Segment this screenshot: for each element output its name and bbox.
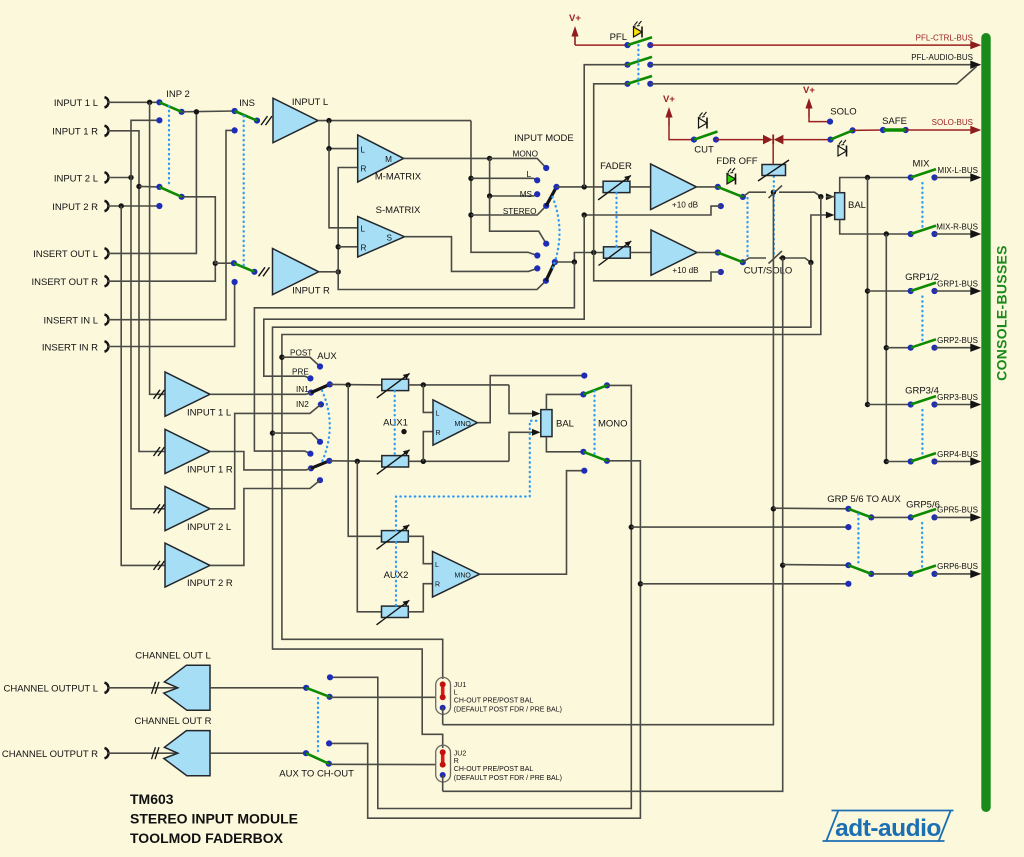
arrow into BAL2 L (826, 193, 835, 200)
svg-text:MNO: MNO (455, 421, 472, 428)
wire INPUT L output (318, 118, 471, 123)
wire pivot2 to fader R (555, 250, 604, 265)
svg-text:V+: V+ (663, 94, 675, 105)
svg-text:FADER: FADER (600, 161, 632, 172)
svg-text:AUX TO CH-OUT: AUX TO CH-OUT (279, 769, 354, 780)
wire INPUT R to matrices (336, 168, 358, 272)
wire INPUT 2 L to column (107, 175, 134, 180)
switch FDR-OFF-R (697, 249, 746, 265)
LED FDR-OFF green (726, 168, 735, 185)
connector INSERT OUT R (31, 276, 108, 288)
wire AUX1-L to MNO1 (423, 385, 433, 413)
label TOOLMOD FADERBOX (130, 830, 284, 846)
dotted gang AUX-TO-CHOUT (317, 698, 319, 751)
wire M output (404, 156, 493, 161)
diode pair (763, 135, 783, 145)
label SOLO-BUS (932, 118, 973, 127)
switch GRP4-BUS (908, 453, 938, 465)
wire INPUT R output node (319, 269, 341, 274)
svg-text:L: L (454, 690, 458, 697)
svg-text:V+: V+ (569, 13, 581, 24)
svg-text:M-MATRIX: M-MATRIX (375, 172, 422, 183)
wire GPR5-BUS (935, 513, 982, 521)
label FDR OFF (716, 156, 757, 167)
wire L after FDR-OFF (743, 192, 766, 197)
node IN1-1 contact (308, 390, 314, 396)
svg-text:L: L (361, 146, 366, 155)
power V+ SOLO (803, 85, 815, 117)
wire PFL tap L (584, 65, 627, 187)
relay FDR-OFF coil (758, 160, 789, 181)
svg-text:INPUT 2 R: INPUT 2 R (187, 578, 233, 589)
op-amp INPUT 1 L lower (154, 372, 232, 418)
wire V+ to SOLO contact (809, 117, 833, 125)
label GRP 5/6 TO AUX (827, 494, 901, 505)
wire chout R to switch (210, 752, 306, 754)
wire diodes to SOLO switch (783, 139, 830, 141)
wire GRP56-R alt (640, 581, 851, 587)
svg-text:CH-OUT PRE/POST BAL: CH-OUT PRE/POST BAL (454, 697, 534, 704)
wire INPUT L to S-matrix L (329, 149, 358, 228)
switch MIX-R-BUS (908, 226, 938, 237)
wire GRP56 R row (783, 564, 849, 567)
svg-text:PRE: PRE (292, 367, 309, 376)
connector INSERT OUT L (33, 248, 108, 260)
label GRP3-BUS (937, 393, 978, 402)
svg-text:POST: POST (290, 349, 312, 358)
switch PFL-ctrl (624, 37, 653, 48)
label CHANNEL OUT R (134, 716, 211, 727)
dotted gang INP2 (168, 106, 170, 187)
node MS2 (534, 265, 540, 271)
op-amp INPUT 1 R lower (154, 429, 233, 475)
wire GRP1-BUS (935, 287, 982, 295)
wire L to BAL (771, 190, 824, 200)
label POST (290, 349, 312, 358)
svg-text:CUT: CUT (694, 145, 714, 156)
wire R after FDR-OFF (743, 258, 766, 262)
svg-text:CHANNEL OUT R: CHANNEL OUT R (134, 716, 211, 727)
svg-text:BAL: BAL (848, 200, 866, 211)
wire GRP56 L feed (443, 192, 776, 725)
wire BAL2 out R (840, 220, 911, 237)
label MIX-L-BUS (938, 166, 978, 175)
switch AUX-TO-CHOUT-L (303, 674, 333, 700)
connector INPUT 1 R (52, 126, 108, 138)
node POST2 contact (317, 439, 323, 445)
switch AUX-TO-CHOUT-R (303, 740, 332, 767)
node POST1 contact (317, 363, 323, 369)
wire INPUT 1 L to INP2 switch (107, 100, 159, 105)
svg-text:R: R (454, 758, 459, 765)
wire pivotL to AUX1 pot (330, 382, 382, 387)
wire V+ to CUT switch (669, 126, 694, 140)
wire INSERT OUT L tap (107, 112, 196, 254)
driver CHANNEL OUT R (164, 731, 210, 776)
wire BAL1 out R (546, 437, 586, 455)
svg-text:INPUT L: INPUT L (292, 97, 328, 108)
label MIX (913, 159, 931, 170)
dotted gang GRP3/4 (921, 410, 923, 456)
svg-text:INS: INS (239, 98, 255, 109)
svg-text:SAFE: SAFE (882, 116, 907, 127)
switch AUX-select-L arm (311, 381, 333, 392)
wire fader R out (630, 252, 651, 254)
label TM603 (130, 791, 174, 807)
svg-text:INP 2: INP 2 (166, 89, 190, 100)
connector INSERT IN L (43, 315, 108, 327)
dotted gang GRP1/2 (921, 297, 923, 343)
potentiometer AUX1-L (377, 373, 410, 398)
switch MIX-L-BUS (908, 169, 938, 180)
dotted gang GRP56 bus (921, 523, 923, 568)
wire AUX1-R out (409, 459, 509, 464)
svg-text:V+: V+ (803, 85, 815, 96)
wire POST-L loop (279, 197, 821, 679)
svg-text:SOLO-BUS: SOLO-BUS (932, 118, 973, 127)
dotted gang AUX-select (321, 391, 330, 465)
switch PFL-audio-R (624, 76, 653, 87)
wire amp1R to IN1-2 (210, 452, 311, 470)
wire FDR-OFF-R alt contact (594, 253, 724, 281)
wire R to AUX2 pot (357, 461, 381, 612)
wire PRE-R loop (254, 262, 574, 454)
op-amp M-MATRIX (358, 135, 422, 183)
switch FDR-OFF-L (696, 184, 746, 200)
driver CHANNEL OUT L (164, 665, 210, 710)
wire INP2-L output to INS (182, 109, 235, 114)
wire chout L sel to JU1 (330, 696, 436, 698)
svg-text:MIX-L-BUS: MIX-L-BUS (938, 166, 978, 175)
slash marks INS-R (259, 267, 270, 276)
switch INP2-R arm (159, 187, 181, 197)
svg-text:INPUT 1 L: INPUT 1 L (187, 407, 231, 418)
wire MIX-L-BUS (935, 173, 982, 181)
switch AUX-select-R arm (311, 458, 332, 469)
svg-text:STEREO: STEREO (503, 207, 537, 216)
svg-text:+10 dB: +10 dB (672, 201, 699, 210)
switch INP2-R contacts (156, 184, 184, 209)
op-amp INPUT 2 L lower (154, 487, 232, 533)
switch SAFE (880, 127, 909, 133)
svg-text:BAL: BAL (556, 419, 574, 430)
label GRP3/4 (905, 386, 939, 397)
connector CHANNEL OUTPUT R (2, 748, 109, 760)
svg-text:MIX-R-BUS: MIX-R-BUS (936, 222, 978, 231)
LED SOLO white (837, 140, 846, 157)
node IN2-2 contact (317, 477, 323, 483)
svg-text:FDR OFF: FDR OFF (716, 156, 757, 167)
svg-text:CH-OUT PRE/POST BAL: CH-OUT PRE/POST BAL (454, 766, 534, 773)
svg-text:R: R (435, 582, 440, 589)
wire POST-R loop (270, 263, 811, 749)
svg-text:L: L (436, 411, 440, 418)
svg-text:INSERT OUT L: INSERT OUT L (33, 249, 98, 260)
label PFL-CTRL-BUS (916, 34, 973, 43)
wire MIX-R-BUS (935, 230, 982, 238)
wire mix L column (865, 178, 870, 408)
switch GRP3-BUS (908, 396, 938, 408)
label GRP1/2 (905, 272, 939, 283)
label CUT (694, 145, 714, 156)
wire chout L to switch (210, 687, 306, 689)
wire CHANNEL OUTPUT L (107, 682, 178, 694)
balance control BAL1 (541, 410, 574, 437)
wire MNO1 out to MONO contact (477, 373, 587, 423)
svg-text:MONO: MONO (513, 150, 538, 159)
svg-text:IN2: IN2 (296, 400, 309, 409)
svg-text:MS: MS (520, 190, 533, 199)
dotted gang MIX (921, 183, 923, 228)
svg-text:INPUT 1 R: INPUT 1 R (52, 127, 98, 138)
wire POST-L to AUX contact (282, 357, 320, 366)
dotted gang PFL (637, 45, 639, 84)
wire GRP1 row (868, 290, 911, 292)
svg-text:S: S (387, 234, 393, 243)
dotted AUX2 to BAL1 (396, 421, 540, 531)
svg-text:INPUT 2 R: INPUT 2 R (52, 202, 98, 213)
op-amp INPUT R (273, 249, 331, 297)
wire INPUT 1 R to column (107, 131, 165, 452)
label CONSOLE-BUSSES (994, 245, 1010, 381)
wire amp2R to IN2-2 (210, 480, 320, 565)
label AUX TO CH-OUT (279, 769, 354, 780)
label IN2 (296, 400, 309, 409)
wire amp1L to IN1-1 (210, 393, 311, 395)
switch INPUT-MODE-R arm (546, 259, 558, 281)
svg-text:(DEFAULT POST FDR / PRE BAL): (DEFAULT POST FDR / PRE BAL) (454, 707, 562, 714)
svg-text:R: R (361, 244, 367, 253)
label AUX2 (384, 570, 409, 581)
potentiometer AUX1-R (377, 450, 410, 475)
wire L to AUX2 pot (348, 385, 381, 536)
connector INSERT IN R (42, 341, 109, 353)
svg-text:JU2: JU2 (454, 750, 467, 757)
wire GRP3 row (868, 404, 911, 406)
svg-text:PFL: PFL (610, 32, 627, 43)
wire CHANNEL OUTPUT R (107, 747, 178, 759)
connector INPUT 2 L (54, 172, 109, 184)
wire JU1 bottom pad (442, 708, 444, 725)
wire INPUT R to STEREO2 contact (338, 272, 546, 290)
svg-text:M: M (385, 155, 392, 164)
svg-text:INPUT 1 L: INPUT 1 L (54, 98, 98, 109)
power V+ PFL (569, 13, 581, 45)
wire V+ to PFL switch (575, 44, 628, 46)
wire pivotR to AUX1 pot (329, 459, 382, 464)
svg-text:INPUT R: INPUT R (292, 286, 330, 297)
wire INSERT IN L return (107, 130, 235, 319)
switch GRP2-BUS (908, 339, 938, 351)
wire stereo R to BAL1 (509, 429, 541, 461)
wire GRP4-BUS (935, 457, 982, 465)
svg-text:INSERT IN L: INSERT IN L (43, 316, 98, 327)
svg-text:CHANNEL OUTPUT R: CHANNEL OUTPUT R (2, 749, 98, 760)
svg-text:STEREO INPUT MODULE: STEREO INPUT MODULE (130, 811, 298, 827)
wire GRP56-R to bus switch (871, 573, 910, 575)
label JU2 (454, 750, 562, 782)
wire PFL tap R (594, 84, 628, 253)
svg-text:CUT/SOLO: CUT/SOLO (744, 266, 793, 277)
dotted gang FDR-OFF (746, 198, 748, 258)
svg-text:INPUT MODE: INPUT MODE (514, 133, 573, 144)
label GRP1-BUS (937, 279, 978, 288)
svg-text:S-MATRIX: S-MATRIX (376, 205, 421, 216)
contact CUT/SOLO R tick (769, 251, 783, 264)
slash marks INS-L (261, 116, 272, 125)
svg-text:R: R (361, 165, 367, 174)
switch GRP56-R (845, 562, 874, 577)
wire SOLO-BUS (906, 126, 982, 134)
label PFL-AUDIO-BUS (911, 53, 973, 62)
wire FDR-OFF-L alt contact (582, 203, 724, 218)
switch GRP5 bus (908, 509, 938, 521)
switch INS-R contacts (231, 260, 258, 285)
dotted gang faders (615, 193, 617, 247)
wire PFL-CTRL-BUS (650, 41, 981, 49)
label AUX (317, 351, 337, 362)
label FADER (600, 161, 632, 172)
wire SOLO to SAFE (853, 129, 883, 131)
label IN1 (296, 385, 309, 394)
label STEREO INPUT MODULE (130, 811, 298, 827)
svg-text:IN1: IN1 (296, 385, 309, 394)
op-amp +10dB L (651, 164, 699, 210)
wire AUX2-L to MNO2 (408, 536, 432, 563)
wire to contact L1 (471, 178, 537, 180)
wire stereo L to BAL1 (509, 385, 541, 417)
svg-text:GRP3-BUS: GRP3-BUS (937, 393, 978, 402)
label GPR5-BUS (937, 506, 978, 515)
node PRE2 contact (307, 451, 313, 457)
logo adt-audio (823, 811, 954, 843)
wire GRP56-L to bus switch (871, 516, 910, 518)
label MS (520, 190, 533, 199)
label MONO (513, 150, 538, 159)
contact CUT/SOLO L tick (769, 186, 783, 199)
dotted gang INPUT-MODE (552, 197, 560, 271)
fader R (599, 241, 632, 266)
wire INPUT L to M-matrix L (326, 121, 357, 152)
node MONO1 (543, 165, 549, 171)
svg-text:JU1: JU1 (454, 682, 467, 689)
svg-text:R: R (436, 430, 441, 437)
label CUT/SOLO (744, 266, 793, 277)
potentiometer AUX2-R (377, 600, 410, 625)
label MONO (598, 419, 628, 430)
label GRP4-BUS (937, 450, 978, 459)
label MIX-R-BUS (936, 222, 978, 231)
svg-text:CHANNEL OUT L: CHANNEL OUT L (135, 651, 211, 662)
wire INP2-R output to INS2 (182, 197, 234, 263)
switch GRP6 bus (908, 566, 938, 578)
wire PFL-AUDIO-BUS (650, 60, 981, 68)
balance control BAL2 (835, 193, 866, 220)
switch INS-R arm (234, 263, 255, 272)
wire CUT to diodes (716, 139, 763, 141)
wire R to BAL riser (779, 215, 827, 265)
switch CUT (691, 132, 719, 143)
switch INS-L contacts (232, 108, 261, 134)
connector INPUT 1 L (54, 97, 109, 109)
wire GRP4 row (886, 461, 910, 463)
wire S output to MS2 (405, 237, 538, 272)
switch INP2-L arm (159, 102, 181, 112)
connector CHANNEL OUTPUT L (4, 683, 109, 695)
label INP 2 (166, 89, 190, 100)
wire pivot1 to fader L (557, 184, 604, 189)
wire INPUT 2 R column down to amp (121, 206, 165, 565)
svg-text:GPR5-BUS: GPR5-BUS (937, 506, 978, 515)
switch MONO-L (583, 382, 610, 394)
svg-text:GRP1/2: GRP1/2 (905, 272, 939, 283)
wire GRP2-BUS (935, 344, 982, 352)
dotted gang GRP56 select (857, 514, 859, 564)
svg-text:PFL-CTRL-BUS: PFL-CTRL-BUS (916, 34, 973, 43)
bus bar CONSOLE-BUSSES (981, 33, 990, 812)
power V+ CUT (663, 94, 675, 126)
wire PFL audio R to bus (650, 67, 976, 84)
op-amp INPUT 2 R lower (154, 543, 233, 589)
label INS (239, 98, 255, 109)
svg-text:INSERT OUT R: INSERT OUT R (31, 277, 98, 288)
svg-text:CONSOLE-BUSSES: CONSOLE-BUSSES (994, 245, 1010, 381)
wire AUX2-R to MNO2 (408, 584, 432, 612)
wire diodes to relay (772, 145, 774, 165)
wire chout R sel to JU2 (329, 763, 436, 765)
wire INSERT IN R return (107, 282, 235, 347)
node IN2-1 contact (318, 401, 324, 407)
label JU1 (454, 682, 562, 714)
dotted relay to contacts (773, 177, 775, 257)
potentiometer AUX2-L (377, 525, 410, 550)
label CHANNEL OUT L (135, 651, 211, 662)
wire GRP2 row (886, 347, 910, 349)
svg-text:GRP1-BUS: GRP1-BUS (937, 279, 978, 288)
node PRE1 contact (307, 375, 313, 381)
fader L (598, 175, 631, 200)
label GRP5/6 (906, 500, 940, 511)
wire JU2 bottom pad (442, 775, 444, 791)
wire INPUT 2 L column down to amp (131, 178, 165, 509)
wire MONO-L pivot out (330, 385, 634, 808)
node L2 (534, 252, 540, 258)
label STEREO (503, 207, 537, 216)
svg-text:GRP4-BUS: GRP4-BUS (937, 450, 978, 459)
op-amp MNO1 (433, 400, 477, 445)
label L (526, 170, 531, 179)
connector INPUT 2 R (52, 201, 108, 213)
wire amp2L to IN2-1 (210, 404, 321, 508)
wire BAL2 out L (840, 175, 911, 193)
node MS1 (534, 191, 540, 197)
LED PFL yellow (633, 21, 642, 38)
switch INPUT-MODE-L arm (546, 184, 559, 206)
switch INS-L arm (235, 111, 257, 121)
dotted gang MONO (593, 391, 595, 455)
LED CUT white (698, 112, 707, 129)
svg-text:GRP 5/6 TO AUX: GRP 5/6 TO AUX (827, 494, 901, 505)
op-amp S-MATRIX (358, 205, 421, 257)
svg-text:TOOLMOD FADERBOX: TOOLMOD FADERBOX (130, 830, 284, 846)
switch SOLO (827, 127, 855, 142)
svg-text:+10 dB: +10 dB (672, 266, 699, 275)
svg-text:SOLO: SOLO (830, 107, 856, 118)
wire fader L out (630, 186, 651, 188)
jumper JU2 (436, 745, 451, 782)
svg-text:MIX: MIX (913, 159, 931, 170)
svg-text:INSERT IN R: INSERT IN R (42, 342, 98, 353)
